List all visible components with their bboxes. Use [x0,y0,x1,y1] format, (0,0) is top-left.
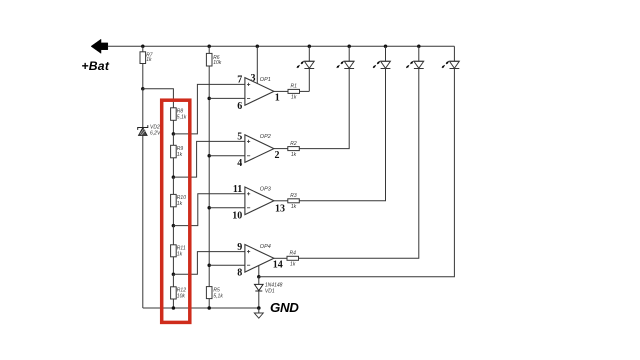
node tap1 [172,132,176,136]
svg-text:VD1: VD1 [265,288,275,294]
resistor R11 [171,245,177,257]
node sense2 [207,154,211,158]
wire bottom bus [143,307,259,309]
svg-text:11: 11 [233,184,242,195]
node sense4 [207,263,211,267]
wire tap2 to OP2+ [173,141,245,177]
resistor R9 [171,145,177,158]
node VD1 top [257,275,261,279]
op-amp OP1 [237,75,279,112]
wire R4 to LED4 [299,69,419,259]
node gnd [257,306,261,310]
node tap2 [172,175,176,179]
svg-text:1k: 1k [291,152,297,158]
resistor R10 [171,194,177,206]
wire R3 to LED3 [299,69,385,201]
wire tap4 to R12 [172,274,174,287]
svg-text:1k: 1k [177,152,183,158]
LED D4 [406,46,423,68]
svg-text:7: 7 [237,75,242,86]
wire VD1 to gnd bus [258,291,260,308]
wire OP1 out [274,90,288,92]
wire sense to OP1- [209,97,245,99]
svg-text:4: 4 [237,158,242,169]
svg-text:R3: R3 [290,193,297,199]
wire zener to gnd bus [142,135,144,308]
wire sense to OP3- [209,207,245,209]
svg-text:6: 6 [237,101,242,112]
svg-text:1k: 1k [177,251,183,257]
LED D1 [297,46,314,91]
node pin3 bus [256,45,260,49]
svg-text:10: 10 [232,210,242,221]
node R5 gnd [207,306,211,310]
svg-text:13: 13 [275,203,285,214]
svg-text:6,2V: 6,2V [150,131,161,137]
svg-text:1k: 1k [291,204,297,210]
svg-text:14: 14 [273,259,283,270]
op-amp OP2 [237,132,279,170]
svg-text:2: 2 [275,150,280,161]
node chain gnd [172,306,176,310]
svg-text:1: 1 [275,92,280,103]
resistor R1 [288,89,300,93]
svg-text:1k: 1k [290,262,296,268]
svg-text:1k: 1k [291,95,297,101]
svg-text:5: 5 [237,132,242,143]
wire sense to OP4- [209,264,245,266]
op-amp OP4 [237,242,282,279]
node LED1 bus [308,45,312,49]
resistor R3 [288,199,300,203]
wire tap4 to OP4+ [173,252,245,275]
svg-text:9: 9 [237,242,242,253]
wire sense to OP2- [209,155,245,157]
node R6 top [207,45,211,49]
resistor R2 [288,147,300,151]
wire R10 to tap3 [172,207,174,226]
highlight red box [162,100,190,322]
svg-text:5,1k: 5,1k [213,294,223,300]
svg-text:1k: 1k [146,57,152,63]
node R7 top [141,45,145,49]
node A [141,87,145,91]
wire sense column [208,66,210,287]
wire R8 to tap1 [172,120,174,134]
svg-text:10k: 10k [177,293,186,299]
svg-text:OP3: OP3 [260,186,272,192]
wire OP3 out [274,200,288,202]
svg-text:R4: R4 [289,251,296,257]
node tap4 [172,273,176,277]
wire node to VD1 [258,277,260,285]
svg-text:OP1: OP1 [260,77,271,83]
arrow +Bat [91,39,108,53]
wire tap3 to OP3+ [173,194,245,226]
svg-text:R2: R2 [290,141,297,147]
zener VD2 [138,125,148,135]
wire OP4 gnd stub [258,266,260,277]
node tap3 [172,224,176,228]
svg-text:5,1k: 5,1k [177,114,187,120]
diode VD1 [255,284,264,291]
svg-text:R1: R1 [290,84,297,90]
op-amp OP3 [232,184,285,221]
ground [258,308,260,313]
wire R2 to LED2 [299,69,349,149]
wire top bus [108,45,455,47]
resistor R12 [171,287,177,299]
node LED4 bus [417,45,421,49]
wire R12 to gnd bus [172,299,174,308]
wire OP4 out [274,257,287,259]
resistor R8 [171,108,177,121]
LED D3 [373,46,390,68]
resistor R6 [206,53,212,66]
resistor R5 [206,287,212,299]
svg-text:GND: GND [270,300,299,315]
wire LED5 row [259,69,455,277]
wire tap3 to R11 [172,226,174,245]
svg-text:1k: 1k [177,201,183,207]
wire OP2 out [274,148,288,150]
wire R11 to tap4 [172,257,174,275]
node LED3 bus [384,45,388,49]
wire R9 to tap2 [172,158,174,177]
node LED2 bus [347,45,351,49]
wire R7 to node A [142,64,144,89]
resistor R4 [287,256,299,260]
wire node A to chain top [143,89,174,108]
wire tap1 to OP1+ [173,84,245,133]
resistor R7 [140,52,146,64]
wire R1 to LED1 [300,90,310,92]
svg-text:OP2: OP2 [260,134,271,140]
wire tap2 to R10 [172,177,174,194]
wire node A to zener [142,89,144,128]
LED D5 [442,46,459,68]
svg-text:10k: 10k [213,60,222,66]
LED D2 [337,46,354,68]
svg-text:8: 8 [237,268,242,279]
svg-text:OP4: OP4 [260,244,271,250]
wire tap1 to R9 [172,134,174,145]
wire pin3 supply [256,46,258,84]
wire R5 to gnd bus [208,299,210,308]
svg-text:+Bat: +Bat [81,59,109,73]
node sense1 [207,97,211,101]
node sense3 [207,206,211,210]
